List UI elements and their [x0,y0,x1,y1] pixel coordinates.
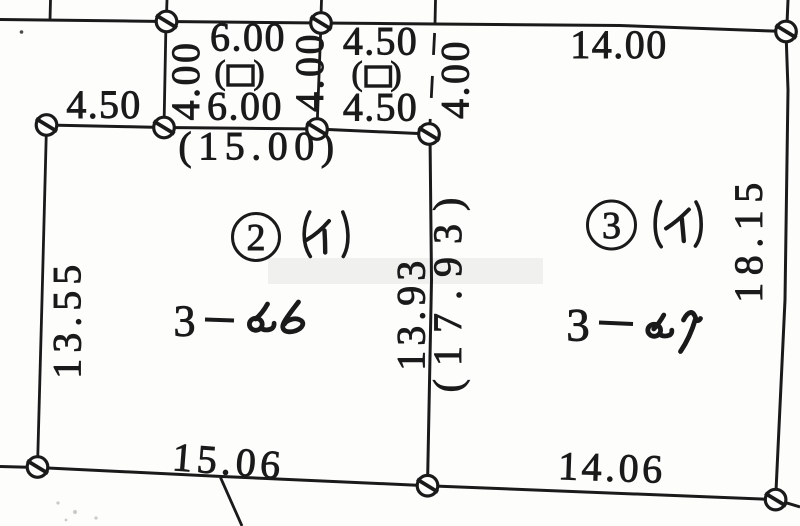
svg-text:3: 3 [174,297,196,346]
svg-text:6.00: 6.00 [207,84,283,129]
survey marker M10 [765,489,786,510]
survey marker M3 [36,115,57,136]
svg-text:2: 2 [247,217,266,259]
survey marker M1 [156,11,177,32]
svg-text:4.00: 4.00 [433,39,478,119]
wire: solid vertical at x=435 above road [434,0,437,24]
svg-text:14.06: 14.06 [557,443,666,492]
survey marker M7 [776,21,797,42]
svg-text:14.00: 14.00 [570,22,668,67]
svg-text:4.50: 4.50 [343,85,418,130]
svg-text:4.00: 4.00 [163,41,208,121]
svg-text:(17.93): (17.93) [425,185,470,393]
wire: south boundary of parcel 2 [0,467,428,486]
wire: west boundary of parcel 2 [38,125,47,467]
label (ro) parcel 2: katakana ro square [366,67,391,86]
survey marker M5 [307,119,328,140]
survey marker M2 [311,13,332,34]
wire: north boundary of parcel 2 (15.00 line) [47,125,430,134]
wire: top edge stub above marker M7 [787,0,788,24]
parcel 2 lot number handwritten 2 [249,304,274,330]
survey marker M6 [419,124,440,145]
survey marker M9 [417,475,438,496]
wire: top edge stub above marker M1 [165,0,168,15]
wire: west edge of small parcel (ro) 1 [164,22,166,128]
svg-text:4.50: 4.50 [66,82,141,127]
wire: top edge stub above marker M2 [320,0,323,16]
svg-text:13.55: 13.55 [45,259,90,379]
parcel 3 lot number handwritten 2 [648,315,672,336]
scan artifact gray band [268,258,543,284]
wire: division stub below south boundary [221,478,243,526]
svg-text:18.15: 18.15 [726,175,771,303]
parcel 3 class label (i) [655,202,701,247]
svg-text:3: 3 [566,300,590,352]
parcel 3 lot number handwritten 7 [681,312,701,351]
svg-text:3: 3 [602,205,621,247]
scan speckle dot top-left [20,30,24,34]
survey marker M4 [154,117,175,138]
parcel 2 lot number dash [205,320,234,321]
wire: top road boundary line [0,20,786,32]
wire: east edge of small parcel (ro) 1 [317,23,321,129]
parcel 3 lot number dash [599,323,633,325]
wire: central boundary between parcel 2 and 3 [428,134,432,486]
parcel 3 circled number 3 [588,201,636,249]
parcel 2 circled number 2 [233,214,280,261]
svg-text:6.00: 6.00 [210,15,286,60]
parcel 2 class label (i) [304,212,348,257]
svg-text:4.00: 4.00 [287,32,332,112]
svg-text:15.06: 15.06 [171,434,287,488]
survey marker M8 [27,457,48,478]
wire: dashed east edge of small parcel (ro) 2 [430,33,435,133]
wire: east boundary of parcel 3 [776,32,788,500]
label (ro) parcel 1: katakana ro square [228,66,253,85]
parcel 2 lot number handwritten 6 [283,302,303,332]
svg-text:(15.00): (15.00) [178,124,340,169]
wire: south boundary of parcel 3 [428,486,800,507]
wire: top edge stub at x=50 [49,0,52,20]
scan speckles bottom-left [56,501,97,521]
